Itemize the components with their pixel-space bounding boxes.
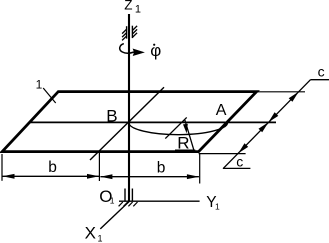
slant median line through plate — [90, 87, 164, 160]
top edge extension line — [257, 91, 305, 93]
axis Y1 line — [119, 200, 200, 202]
section c top underline — [311, 79, 329, 81]
section arrows: down-left at middle crossing — [268, 112, 278, 122]
arrow right-left — [100, 174, 112, 179]
dimension extension line left — [1, 154, 3, 181]
section arrows: up-right at middle crossing — [259, 122, 269, 132]
R arrowhead — [183, 124, 188, 134]
arrow left-left — [2, 174, 14, 179]
origin sleeve bars — [125, 189, 132, 201]
arrow left-right — [87, 174, 99, 179]
plate outline (parallelogram) — [2, 92, 256, 152]
svg-text:1: 1 — [135, 3, 141, 15]
rotation arrow arc — [120, 44, 134, 54]
bottom edge extension line — [199, 153, 246, 155]
section arrows: up-right at top crossing — [289, 92, 299, 102]
svg-text:1: 1 — [36, 77, 43, 91]
top bearing hatching left — [122, 29, 127, 40]
axis Z1 vertical line — [128, 14, 130, 201]
top bearing hatching right — [132, 26, 137, 38]
label Y1 — [206, 194, 220, 212]
axis X1 line — [100, 201, 129, 229]
label phi-dot — [150, 41, 161, 60]
svg-text:Z: Z — [124, 0, 132, 13]
svg-text:c: c — [318, 64, 325, 80]
svg-text:b: b — [48, 159, 57, 176]
ground hatching at origin — [119, 202, 138, 206]
label O1 — [99, 187, 115, 206]
dimension line b right — [100, 176, 198, 178]
svg-text:B: B — [106, 106, 117, 125]
svg-text:A: A — [216, 102, 227, 119]
R underline — [175, 149, 195, 151]
top bearing sleeve bars — [127, 26, 133, 39]
section c bottom underline — [223, 167, 250, 169]
dimension extension line right — [199, 154, 201, 184]
svg-text:1: 1 — [110, 196, 115, 206]
middle horizontal line through plate — [29, 121, 276, 123]
svg-text:1: 1 — [98, 234, 103, 243]
rotation arrow head — [133, 49, 145, 57]
svg-text:X: X — [85, 224, 96, 243]
svg-text:c: c — [236, 154, 243, 170]
leader tick of label 1 — [43, 88, 56, 103]
dimension line b left — [3, 175, 100, 177]
svg-text:1: 1 — [215, 202, 220, 212]
label X1 — [85, 224, 103, 243]
svg-text:b: b — [157, 159, 166, 176]
R leader 45-degree tick — [165, 117, 186, 138]
circle arc of radius R — [129, 122, 228, 134]
R leader line — [185, 120, 194, 150]
section arrows: down-left at bottom crossing — [238, 143, 248, 153]
dimension extension line middle — [98, 153, 100, 181]
label Z1 — [124, 0, 141, 15]
svg-text:φ: φ — [150, 41, 161, 60]
arrow right-right — [187, 174, 199, 179]
section line c-c diagonal — [223, 80, 311, 169]
